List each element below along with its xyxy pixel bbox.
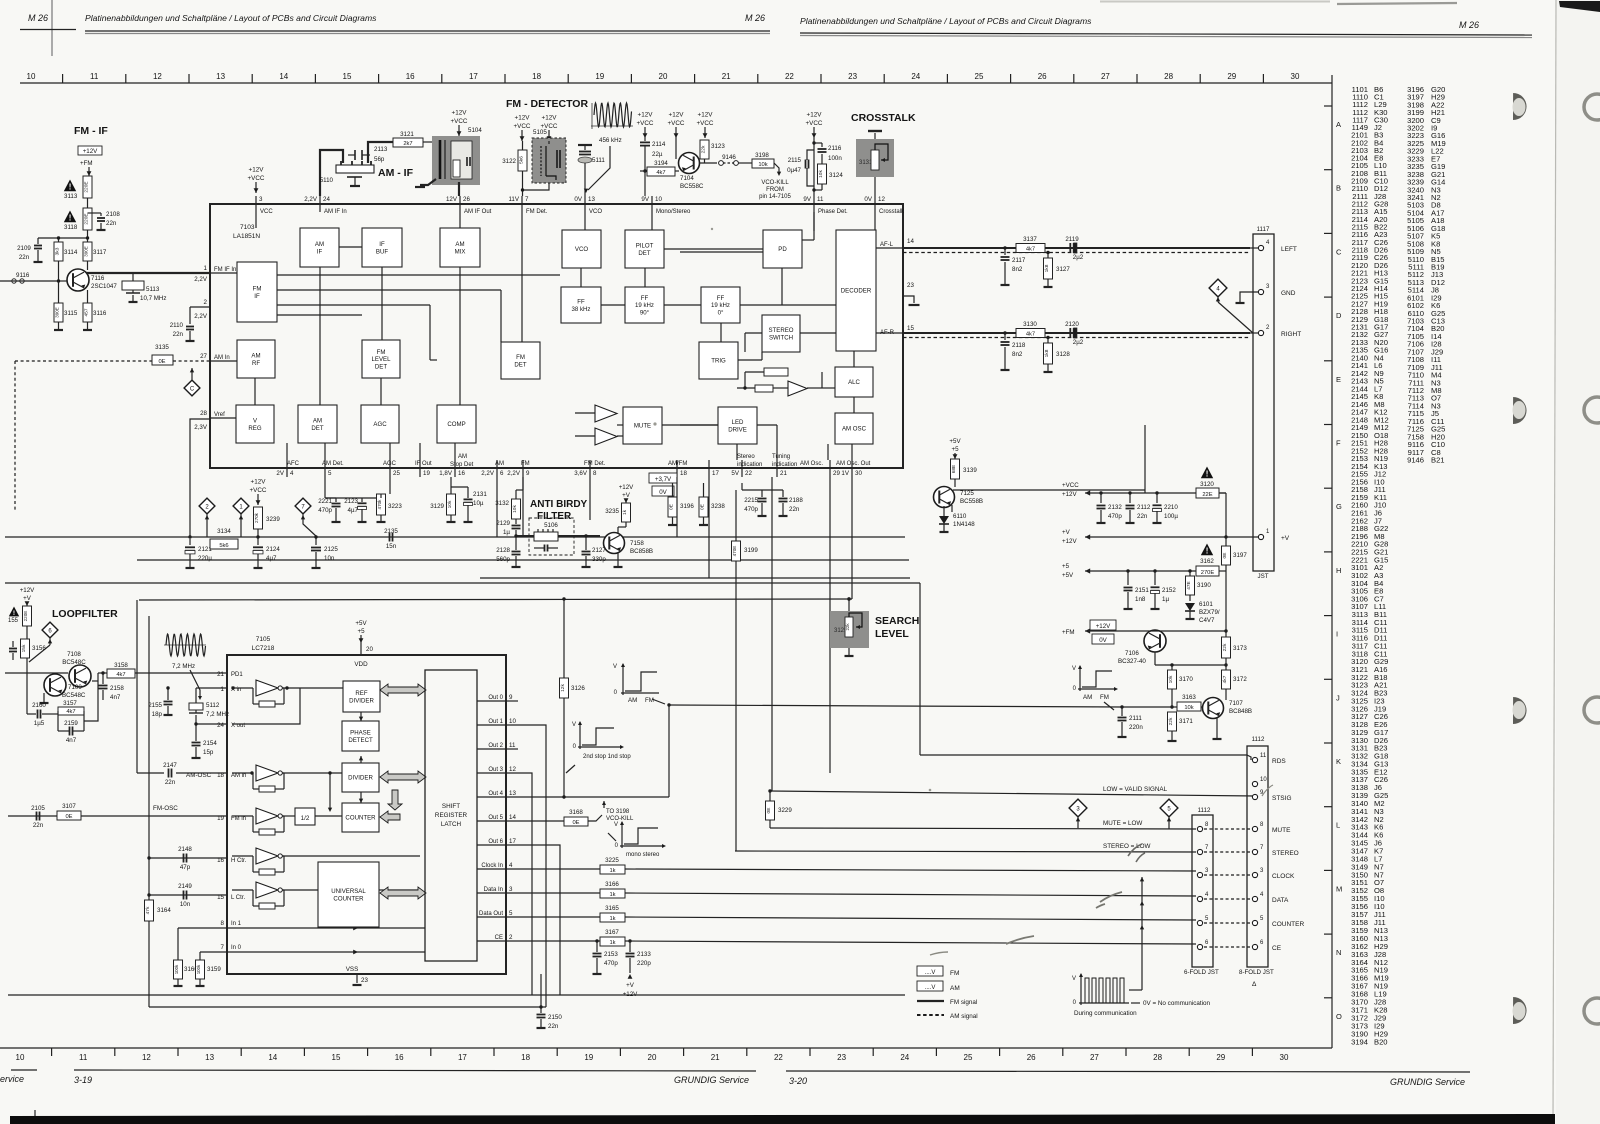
svg-text:2129: 2129 <box>496 520 510 527</box>
svg-text:+5: +5 <box>1062 563 1070 570</box>
svg-text:+12V: +12V <box>1062 491 1077 498</box>
svg-text:1k8: 1k8 <box>1044 349 1050 357</box>
svg-text:3162: 3162 <box>1200 558 1214 565</box>
svg-text:3139: 3139 <box>963 467 977 474</box>
svg-text:VDD: VDD <box>354 661 368 668</box>
svg-text:STEREO = LOW: STEREO = LOW <box>1103 843 1150 850</box>
svg-text:In 0: In 0 <box>231 945 242 951</box>
svg-text:K: K <box>1336 757 1341 766</box>
svg-text:1µ: 1µ <box>1162 596 1169 603</box>
svg-text:3128: 3128 <box>1056 351 1070 358</box>
svg-text:2112: 2112 <box>1137 504 1151 511</box>
resistor 3128 shunt <box>1047 338 1049 344</box>
svg-text:+V: +V <box>626 982 635 989</box>
svg-text:22E: 22E <box>1202 492 1212 498</box>
svg-text:22n: 22n <box>19 254 30 261</box>
svg-text:Out 0: Out 0 <box>488 695 503 701</box>
svg-text:+FM: +FM <box>1062 629 1075 636</box>
svg-text:TO 3198: TO 3198 <box>606 809 630 815</box>
svg-text:H: H <box>1336 566 1341 575</box>
svg-text:FM: FM <box>645 697 654 704</box>
svg-text:8: 8 <box>593 470 597 477</box>
svg-text:3166: 3166 <box>605 881 619 888</box>
svg-text:AM Osc.: AM Osc. <box>800 461 823 467</box>
svg-text:2119: 2119 <box>1065 236 1079 243</box>
svg-text:AM Osc. Out: AM Osc. Out <box>836 461 871 467</box>
svg-text:11V: 11V <box>508 196 519 203</box>
crystal 5112 7,2 MHz <box>195 688 197 703</box>
svg-text:1,8V: 1,8V <box>439 470 453 477</box>
svg-text:+12V: +12V <box>515 115 531 122</box>
svg-text:28: 28 <box>1153 1053 1162 1062</box>
svg-text:15n: 15n <box>386 543 397 550</box>
capacitor 2131 10u <box>451 486 468 488</box>
svg-text:220p: 220p <box>637 960 651 967</box>
wire Out3 route down <box>506 773 532 995</box>
svg-text:470p: 470p <box>1108 513 1122 520</box>
svg-text:11: 11 <box>90 72 99 81</box>
svg-text:BC558B: BC558B <box>960 498 983 505</box>
svg-text:19: 19 <box>595 72 604 81</box>
bottom black bar <box>10 1114 1555 1124</box>
svg-text:5106: 5106 <box>544 522 558 529</box>
svg-text:2113: 2113 <box>374 146 388 153</box>
svg-text:PD1: PD1 <box>231 672 243 678</box>
svg-text:....V: ....V <box>925 970 936 976</box>
svg-text:+VCC: +VCC <box>250 487 267 494</box>
svg-text:LEVEL: LEVEL <box>875 628 909 640</box>
svg-text:10k: 10k <box>758 162 767 168</box>
voltage boxes +3,7V 0V <box>649 473 677 483</box>
LC7218 pin 3 Data In <box>477 892 506 894</box>
resistor 3229 0E <box>769 791 771 801</box>
svg-text:+VCC: +VCC <box>806 120 823 127</box>
svg-text:COMP: COMP <box>447 421 465 428</box>
svg-text:26: 26 <box>1038 72 1047 81</box>
svg-text:Stop Det: Stop Det <box>450 462 474 468</box>
svg-text:30: 30 <box>1291 72 1300 81</box>
svg-text:390E: 390E <box>55 307 60 318</box>
svg-text:4µ7: 4µ7 <box>348 507 359 514</box>
svg-text:3156: 3156 <box>32 645 46 652</box>
svg-text:mono stereo: mono stereo <box>626 852 660 858</box>
resistor 3239 270k <box>254 507 263 529</box>
svg-text:2109: 2109 <box>17 245 31 252</box>
svg-text:+VCC: +VCC <box>668 120 685 127</box>
svg-text:GRUNDIG Service: GRUNDIG Service <box>1390 1077 1465 1087</box>
diamond 5 <box>1160 799 1178 817</box>
svg-text:10: 10 <box>509 718 516 725</box>
svg-text:2V: 2V <box>276 470 284 477</box>
LC7218 pin 17 Out 6 <box>477 844 506 846</box>
capacitor 2129 1u <box>515 519 517 524</box>
svg-text:220E: 220E <box>84 213 90 224</box>
svg-text:10: 10 <box>27 72 36 81</box>
svg-text:27: 27 <box>1090 1053 1099 1062</box>
svg-text:47E: 47E <box>1186 581 1192 590</box>
svg-text:2k7: 2k7 <box>403 141 412 147</box>
svg-text:19: 19 <box>584 1053 593 1062</box>
IC7103 pin 10 Mono/Stereo <box>651 196 653 212</box>
svg-text:25: 25 <box>964 1053 973 1062</box>
svg-text:20: 20 <box>366 646 373 653</box>
transistor Q7109 BC548C <box>44 674 66 696</box>
wire Out5 to 3168 <box>506 820 566 822</box>
svg-text:100k: 100k <box>196 964 201 974</box>
svg-text:3126: 3126 <box>571 685 585 692</box>
svg-text:D: D <box>1336 311 1342 320</box>
svg-text:3172: 3172 <box>1233 676 1247 683</box>
svg-text:100k: 100k <box>174 964 179 974</box>
svg-text:2215: 2215 <box>744 497 758 504</box>
svg-text:3: 3 <box>509 886 513 893</box>
IC7103 ALC amplifier and resistors <box>788 381 807 396</box>
wire Out2 stub <box>506 748 518 750</box>
resistor 3132 10k <box>512 499 521 519</box>
LC7218 pin 2 CE <box>477 940 506 942</box>
IC7103 pin 11 Phase Det. <box>813 196 815 212</box>
svg-text:4k7: 4k7 <box>1026 247 1035 253</box>
svg-text:FF: FF <box>717 295 725 302</box>
wire FM to counter <box>340 815 342 817</box>
warning triangle 3113 <box>64 180 76 192</box>
transistor Q7107 BC848B <box>1203 698 1224 719</box>
svg-text:Out 2: Out 2 <box>488 743 503 749</box>
legend AM box <box>917 981 943 991</box>
svg-text:REG: REG <box>248 425 261 432</box>
svg-text:10: 10 <box>1260 777 1267 783</box>
svg-text:G: G <box>1336 502 1342 511</box>
svg-text:21: 21 <box>217 671 224 678</box>
svg-text:18p: 18p <box>152 711 163 718</box>
capacitor 2117 8n2 shunt <box>1004 248 1006 255</box>
svg-text:DIVIDER: DIVIDER <box>348 775 373 782</box>
svg-text:AM OSC: AM OSC <box>842 426 867 433</box>
svg-text:4k7: 4k7 <box>1222 675 1228 683</box>
IC U7103 LA1851N outline <box>210 204 903 468</box>
svg-text:4: 4 <box>290 470 294 477</box>
scan mark top right corner <box>1559 1 1600 12</box>
svg-text:!: ! <box>1206 547 1209 556</box>
svg-text:MIX: MIX <box>455 248 466 255</box>
capacitor 2147 22n AM-OSC <box>137 772 164 774</box>
svg-text:3113: 3113 <box>64 193 78 200</box>
svg-text:220n: 220n <box>1129 724 1143 731</box>
svg-text:0E: 0E <box>572 820 579 826</box>
pointer 7,2MHz to crystal <box>190 670 200 697</box>
svg-text:100n: 100n <box>828 155 842 162</box>
svg-text:12V: 12V <box>446 196 458 203</box>
svg-text:270E: 270E <box>1201 570 1215 576</box>
legend FM box <box>917 966 943 976</box>
connector 8-fold pin 8 MUTE <box>1252 826 1257 831</box>
svg-text:27: 27 <box>1101 72 1110 81</box>
svg-text:38 kHz: 38 kHz <box>572 306 591 313</box>
wire 7125 collector <box>951 505 953 512</box>
svg-text:LC7218: LC7218 <box>252 645 275 652</box>
svg-text:4k7: 4k7 <box>116 672 125 678</box>
svg-text:3127: 3127 <box>1056 266 1070 273</box>
wire pin29 loop down <box>829 477 831 773</box>
label VCO-KILL FROM pin 14-7105 <box>774 163 779 172</box>
svg-text:+FM: +FM <box>80 160 93 167</box>
svg-text:2221: 2221 <box>318 498 332 505</box>
svg-text:BUF: BUF <box>376 248 388 255</box>
svg-text:28: 28 <box>200 410 207 417</box>
svg-text:3122: 3122 <box>502 158 516 165</box>
svg-text:8n2: 8n2 <box>1012 266 1023 273</box>
IC7103 pin 18 <box>676 460 678 477</box>
power +V +12V under 2133 <box>628 974 633 979</box>
wire AM/FM switch line <box>669 705 1122 707</box>
capacitor 2128 560p <box>515 536 517 550</box>
resistor 3196 0E <box>668 497 677 517</box>
svg-text:22n: 22n <box>1137 513 1148 520</box>
svg-text:2148: 2148 <box>178 846 192 853</box>
svg-text:AM: AM <box>495 461 504 467</box>
svg-text:3171: 3171 <box>1179 718 1193 725</box>
wire bottom bus y1007 <box>149 1006 546 1008</box>
svg-text:7105: 7105 <box>256 636 271 643</box>
wire data out line <box>506 916 603 918</box>
svg-text:indication: indication <box>772 462 797 468</box>
svg-text:VCO: VCO <box>589 209 602 215</box>
svg-text:V: V <box>572 722 576 728</box>
LC7218 pin 12 Out 3 <box>477 772 506 774</box>
wire Out0 stub <box>506 700 518 702</box>
svg-text:4: 4 <box>509 862 513 869</box>
svg-text:IF: IF <box>317 248 323 255</box>
svg-text:+5V: +5V <box>1062 572 1074 579</box>
svg-text:21: 21 <box>722 72 731 81</box>
svg-text:5k6: 5k6 <box>519 156 525 164</box>
svg-text:3129: 3129 <box>430 503 444 510</box>
svg-text:3238: 3238 <box>711 503 725 510</box>
gray bus arrow universal counter <box>380 887 426 899</box>
svg-text:IF: IF <box>379 241 385 248</box>
svg-text:3198: 3198 <box>755 152 769 159</box>
footer left: Service <box>11 1069 37 1071</box>
svg-text:AM: AM <box>458 454 467 460</box>
svg-text:10k: 10k <box>512 505 518 513</box>
punch hole shadow at y=710 <box>1513 697 1527 724</box>
svg-text:6-FOLD JST: 6-FOLD JST <box>1184 969 1219 976</box>
wire 7106 collector node y665 <box>1154 652 1156 665</box>
svg-text:3168: 3168 <box>569 809 583 816</box>
svg-text:5111: 5111 <box>592 157 605 164</box>
IC7103 block FF 19 kHz 0° <box>701 287 740 323</box>
wire In 1 <box>178 927 425 929</box>
svg-text:M: M <box>1336 884 1342 893</box>
wire AM div junction <box>329 773 331 810</box>
capacitor 2108 22n <box>88 212 102 214</box>
svg-text:H Ctr.: H Ctr. <box>231 858 247 864</box>
svg-text:0V: 0V <box>574 196 582 203</box>
svg-text:AM in: AM in <box>231 773 246 779</box>
svg-text:5113: 5113 <box>146 286 160 293</box>
svg-text:5110: 5110 <box>320 177 334 184</box>
svg-text:12k: 12k <box>560 684 566 692</box>
svg-text:!: ! <box>13 610 15 617</box>
LC7218 pin 9 Out 0 <box>477 700 506 702</box>
capacitor 2109 22n <box>37 238 39 244</box>
svg-text:C: C <box>1336 247 1342 256</box>
svg-text:V: V <box>613 664 617 670</box>
svg-text:LEFT: LEFT <box>1281 246 1297 253</box>
svg-text:17: 17 <box>712 470 719 477</box>
svg-text:18: 18 <box>521 1053 530 1062</box>
wire H Ctr line <box>149 857 227 859</box>
svg-text:3163: 3163 <box>1182 694 1196 701</box>
connector 1117 pin 1 +V <box>1258 534 1263 539</box>
svg-text:DIVIDER: DIVIDER <box>349 697 374 704</box>
capacitor 2112 22n <box>1128 491 1131 494</box>
svg-text:COUNTER: COUNTER <box>345 815 376 822</box>
capacitor 2188 22n <box>762 489 783 491</box>
diamond C <box>184 380 200 396</box>
svg-text:4k7: 4k7 <box>656 170 665 176</box>
connector 1117 pin 3 GND <box>1258 289 1263 294</box>
svg-text:19 kHz: 19 kHz <box>711 302 730 309</box>
svg-text:0°: 0° <box>718 309 724 316</box>
capacitor 2133 220p <box>628 939 631 942</box>
svg-text:VCO: VCO <box>575 246 588 253</box>
svg-text:Stereo: Stereo <box>737 454 755 460</box>
svg-text:IF: IF <box>254 293 260 300</box>
IC7103 mute input amplifiers <box>595 405 617 422</box>
IC7103 pin 22 <box>741 460 743 477</box>
warning triangle 2155/3155 <box>9 607 19 617</box>
capacitor 2221 470p <box>324 477 326 498</box>
svg-text:+VCC: +VCC <box>451 118 468 125</box>
svg-text:2155: 2155 <box>148 702 162 709</box>
IC7103 block DECODER <box>836 230 876 351</box>
svg-text:IF Out: IF Out <box>415 461 432 467</box>
svg-text:470E: 470E <box>732 546 737 557</box>
svg-text:MUTE: MUTE <box>1272 827 1291 834</box>
svg-text:AM: AM <box>251 353 260 360</box>
svg-text:7158: 7158 <box>630 540 644 547</box>
svg-text:3,6V: 3,6V <box>574 470 588 477</box>
svg-text:270k: 270k <box>254 512 259 523</box>
IC7103 block MUTE <box>623 407 662 444</box>
ceramic resonator 5111 <box>584 145 586 150</box>
svg-text:2159: 2159 <box>64 720 78 727</box>
IC7103 block STEREO SWITCH <box>762 315 800 352</box>
svg-text:13: 13 <box>205 1053 214 1062</box>
svg-text:+5: +5 <box>951 446 959 453</box>
capacitor loopfilter small <box>12 641 14 647</box>
svg-text:During communication: During communication <box>1074 1010 1137 1017</box>
svg-text:AM: AM <box>315 241 324 248</box>
capacitor 2158 4n7 <box>102 673 104 684</box>
dashed AM antenna line with 3135 <box>15 360 152 362</box>
wire vertical x137 bus <box>136 600 138 773</box>
IC7103 pin 3 VCC <box>255 196 257 212</box>
svg-text:3107: 3107 <box>62 803 76 810</box>
svg-text:LOW = VALID SIGNAL: LOW = VALID SIGNAL <box>1103 786 1168 793</box>
svg-text:10k: 10k <box>1168 675 1174 683</box>
IC7103 block PILOT DET <box>625 230 664 268</box>
svg-text:20: 20 <box>648 1053 657 1062</box>
wire pin 6 AM down to bus <box>496 477 498 537</box>
svg-text:AM Det.: AM Det. <box>322 461 344 467</box>
transistor Q7106 BC327-40 <box>1144 630 1166 652</box>
svg-text:8: 8 <box>221 920 225 927</box>
IC7103 block TRIG <box>699 342 738 379</box>
wire 7125 emitter to rail <box>953 489 1145 491</box>
svg-text:0V: 0V <box>1099 637 1107 644</box>
svg-text:2152: 2152 <box>1162 587 1176 594</box>
svg-text:3135: 3135 <box>155 344 169 351</box>
connector 8-fold pin 7 STEREO <box>1252 849 1257 854</box>
resistor 3115 390E <box>54 303 63 322</box>
svg-text:4n7: 4n7 <box>110 694 121 701</box>
svg-text:F: F <box>1336 439 1341 448</box>
svg-text:0V = No communication: 0V = No communication <box>1143 1000 1211 1007</box>
block DIVIDER <box>342 763 379 792</box>
transistor Q7158 BC858B <box>604 533 625 554</box>
graph AM FM right <box>1078 688 1116 690</box>
wire 5105 bottom to pin 7 <box>523 183 550 190</box>
svg-text:9116: 9116 <box>16 272 30 279</box>
svg-text:2124: 2124 <box>266 546 280 553</box>
svg-text:M 26: M 26 <box>28 13 48 23</box>
svg-text:REGISTER: REGISTER <box>435 812 468 819</box>
svg-text:30: 30 <box>855 470 862 477</box>
svg-text:PD: PD <box>778 246 787 253</box>
svg-text:11: 11 <box>817 196 824 203</box>
svg-text:3115: 3115 <box>64 310 78 317</box>
svg-text:2: 2 <box>204 299 208 306</box>
svg-text:0V: 0V <box>864 196 872 203</box>
svg-text:5k6: 5k6 <box>219 543 228 549</box>
svg-text:DET: DET <box>638 250 650 257</box>
svg-text:10: 10 <box>655 196 662 203</box>
svg-text:REF: REF <box>355 690 367 697</box>
svg-text:22k: 22k <box>1168 717 1174 725</box>
svg-text:FF: FF <box>641 295 649 302</box>
svg-text:23: 23 <box>907 282 914 289</box>
svg-text:V: V <box>1072 666 1076 672</box>
svg-text:220E: 220E <box>84 181 90 192</box>
capacitor 2150 22n <box>540 974 542 1013</box>
svg-text:3170: 3170 <box>1179 676 1193 683</box>
graph 2nd stop 1nd stop <box>578 746 622 748</box>
bus wire y583 to RDS loop <box>5 582 920 584</box>
svg-text:15k: 15k <box>21 644 27 652</box>
svg-text:17: 17 <box>458 1053 467 1062</box>
diamond 6 <box>42 622 58 638</box>
power +12V boxed <box>78 146 102 155</box>
svg-text:+5: +5 <box>357 628 365 635</box>
svg-text:100µ: 100µ <box>1164 513 1178 520</box>
svg-text:3197: 3197 <box>1233 552 1247 559</box>
svg-text:B21: B21 <box>1431 456 1445 465</box>
svg-text:22n: 22n <box>548 1023 559 1030</box>
svg-text:1117: 1117 <box>1257 226 1270 233</box>
svg-text:7116: 7116 <box>91 275 105 282</box>
svg-text:5105: 5105 <box>533 129 547 136</box>
svg-text:AM/FM: AM/FM <box>668 461 687 467</box>
diamond 1 <box>233 498 249 514</box>
svg-text:1k: 1k <box>609 892 615 898</box>
svg-text:Mono/Stereo: Mono/Stereo <box>656 209 691 215</box>
wire STEREO line <box>735 851 1196 852</box>
wire clock line <box>506 868 603 870</box>
svg-text:2128: 2128 <box>496 547 510 554</box>
svg-text:5V: 5V <box>731 470 739 477</box>
